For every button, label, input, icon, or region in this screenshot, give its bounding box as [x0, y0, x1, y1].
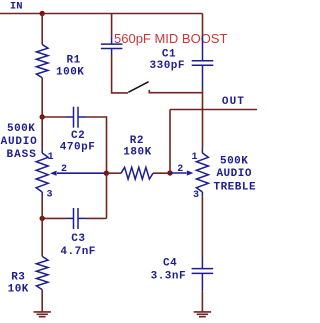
svg-text:500K: 500K	[220, 155, 248, 167]
svg-text:1: 1	[48, 152, 54, 163]
wire C2 left	[42, 116, 66, 118]
switch right contact	[149, 90, 202, 93]
svg-text:4.7nF: 4.7nF	[60, 246, 96, 258]
capacitor C3	[66, 208, 86, 229]
wire C3 right	[86, 217, 107, 219]
wire C3 left	[42, 217, 66, 219]
svg-text:AUDIO: AUDIO	[1, 136, 38, 148]
svg-text:C4: C4	[163, 258, 177, 270]
capacitor C2	[66, 107, 86, 128]
wiper arrow treble	[170, 172, 187, 174]
wire bass pot bottom lead	[41, 197, 43, 219]
wire C1 bottom / treble top vertical	[202, 89, 204, 149]
wire R1 top lead	[41, 14, 43, 45]
junction dot wiper/R2/C3	[104, 171, 109, 176]
switch blade	[128, 82, 148, 93]
svg-text:2: 2	[177, 164, 183, 175]
svg-text:3: 3	[193, 190, 199, 201]
junction dot R2/treble wiper	[167, 170, 172, 175]
capacitor 560pF mid boost	[101, 36, 123, 55]
potentiometer bass 500K	[36, 148, 48, 196]
wire R1 bottom lead	[41, 78, 43, 117]
wire OUT	[170, 109, 257, 111]
wire top IN net	[0, 13, 203, 15]
svg-text:AUDIO: AUDIO	[216, 168, 252, 180]
wire R2 left lead	[106, 172, 121, 174]
wire C2 right to corner	[86, 117, 107, 173]
svg-text:3: 3	[47, 190, 53, 201]
svg-text:TREBLE: TREBLE	[213, 181, 256, 193]
svg-text:OUT: OUT	[222, 96, 245, 108]
svg-text:C1: C1	[162, 49, 176, 61]
ground R3	[34, 312, 51, 317]
wire C1 top lead	[202, 14, 204, 37]
junction dot at C2 row	[40, 114, 45, 119]
resistor R1	[36, 45, 48, 78]
wire C2/C3 vertical to C3 corner	[106, 173, 108, 218]
wire C4 bottom lead	[201, 292, 203, 312]
svg-text:180K: 180K	[123, 147, 151, 159]
svg-text:C2: C2	[71, 130, 85, 142]
wire bass pot top lead	[41, 117, 43, 148]
svg-text:100K: 100K	[56, 67, 84, 79]
svg-text:10K: 10K	[8, 283, 29, 295]
wire 560pF bottom lead to switch	[112, 55, 128, 93]
svg-text:C3: C3	[71, 233, 85, 245]
junction dot at R1 top	[40, 11, 45, 16]
svg-text:3.3nF: 3.3nF	[151, 271, 187, 283]
svg-text:IN: IN	[10, 1, 23, 13]
svg-text:470pF: 470pF	[60, 142, 96, 154]
wire treble bottom to C4	[201, 197, 203, 258]
svg-text:R3: R3	[11, 272, 25, 284]
potentiometer treble 500K	[196, 148, 208, 196]
resistor R3	[36, 256, 48, 289]
junction dot bass bottom	[40, 216, 45, 221]
svg-text:500K: 500K	[7, 123, 35, 135]
wire R3 top lead	[41, 218, 43, 256]
resistor R2	[121, 167, 153, 179]
wire R3 bottom lead	[41, 290, 43, 312]
svg-text:R1: R1	[67, 55, 81, 67]
svg-text:R2: R2	[130, 135, 144, 147]
wire OUT drop	[169, 110, 171, 174]
ground C4	[194, 312, 211, 317]
svg-text:560pF MID BOOST: 560pF MID BOOST	[114, 31, 227, 46]
capacitor C4	[192, 258, 214, 292]
capacitor C1	[192, 36, 214, 89]
wire 560pF top lead	[111, 14, 113, 37]
svg-text:BASS: BASS	[6, 149, 36, 161]
svg-text:330pF: 330pF	[150, 60, 186, 72]
wire R2 right lead	[153, 172, 170, 174]
svg-text:1: 1	[192, 152, 198, 163]
wiper arrow bass	[57, 172, 106, 174]
